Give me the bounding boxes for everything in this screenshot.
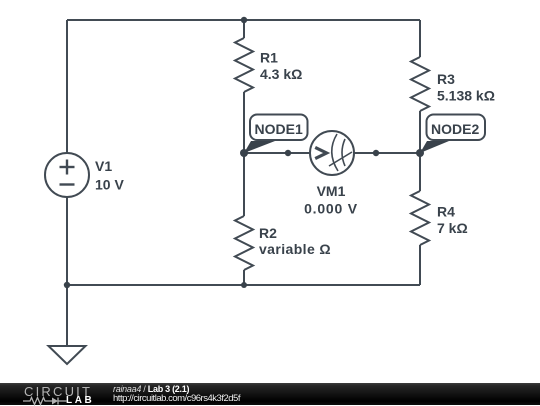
label R2 variable Ohm [259,225,331,257]
node NODE1 callout [244,115,308,154]
CircuitLab logo schematic squiggle (resistor + diode) [23,396,69,406]
svg-text:R4: R4 [437,204,455,220]
wire middle left (NODE1 to VM1) [244,152,310,154]
svg-text:5.138 kΩ: 5.138 kΩ [437,88,495,104]
svg-text:10 V: 10 V [95,177,124,193]
footer title text [113,384,189,394]
wire top horizontal [67,19,420,21]
resistor R4 [411,153,429,285]
ground [49,285,86,364]
voltage source V1 [45,153,89,197]
svg-text:V1: V1 [95,158,112,174]
CircuitLab logo text CIRCUIT [24,384,92,399]
footer bar [0,383,540,405]
svg-text:R2: R2 [259,225,277,241]
junction dot NODE2 [416,149,424,157]
CircuitLab logo text LAB [66,395,94,406]
label VM1 0.000 V [304,183,358,217]
svg-text:VM1: VM1 [317,183,346,199]
svg-text:7 kΩ: 7 kΩ [437,220,468,236]
svg-text:NODE2: NODE2 [431,121,479,137]
wire bottom horizontal [67,284,420,286]
voltmeter VM1 [310,131,354,175]
wire middle right (VM1 to NODE2) [354,152,420,154]
label R4 7 kOhm [437,204,468,237]
terminal dot VM1 left [285,150,291,156]
label V1 10 V [95,158,124,193]
svg-text:variable Ω: variable Ω [259,241,331,257]
svg-text:R1: R1 [260,50,278,66]
wire left vertical lower [66,197,68,285]
svg-text:R3: R3 [437,71,455,87]
footer url text [113,393,240,404]
junction dot bottom left [64,282,70,288]
label R1 4.3 kOhm [260,50,302,83]
resistor R1 [235,20,253,153]
resistor R3 [411,20,429,153]
junction dot bottom R2 [241,282,247,288]
resistor R2 [235,153,253,285]
svg-text:NODE1: NODE1 [255,121,303,137]
label R3 5.138 kOhm [437,71,495,104]
svg-text:0.000 V: 0.000 V [304,201,358,217]
node NODE2 callout [420,115,485,154]
svg-text:4.3 kΩ: 4.3 kΩ [260,66,302,82]
wire left vertical upper [66,20,68,153]
junction dot NODE1 [240,149,248,157]
terminal dot VM1 right [373,150,379,156]
junction dot top R1 [241,17,247,23]
